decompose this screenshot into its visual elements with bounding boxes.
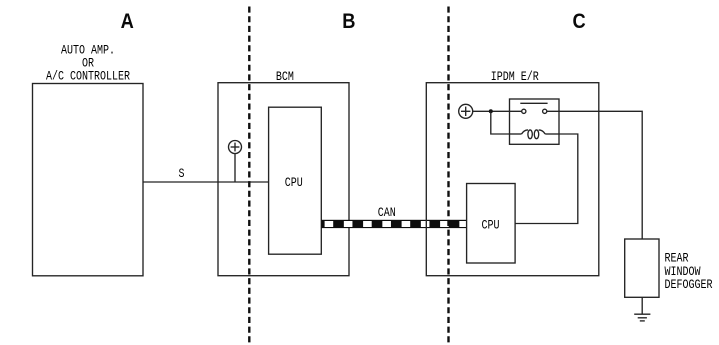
block A/C controller box xyxy=(33,84,144,276)
power symbol (circled plus) in BCM xyxy=(229,141,242,154)
relay coil xyxy=(510,130,560,139)
junction dot on power wire xyxy=(489,109,493,113)
svg-text:A/C CONTROLLER: A/C CONTROLLER xyxy=(46,70,130,85)
IPDM E/R box xyxy=(426,83,599,276)
wire from relay contact to rear window defogger xyxy=(547,111,642,239)
svg-text:S: S xyxy=(178,167,184,182)
ground symbol below defogger xyxy=(634,297,650,321)
svg-text:CPU: CPU xyxy=(481,218,499,233)
wire from relay coil to IPDM CPU xyxy=(515,134,578,224)
svg-text:B: B xyxy=(342,10,355,34)
zone divider dashed line between A and B xyxy=(248,7,250,345)
wire from junction down to relay coil xyxy=(491,111,510,134)
svg-text:C: C xyxy=(573,10,586,34)
svg-text:DEFOGGER: DEFOGGER xyxy=(665,278,713,293)
CAN bus striped line between BCM CPU and IPDM CPU xyxy=(321,220,468,228)
power symbol (circled plus) in IPDM E/R xyxy=(459,104,473,118)
svg-text:CAN: CAN xyxy=(378,206,396,221)
relay contact terminal left xyxy=(522,109,526,113)
svg-text:CPU: CPU xyxy=(285,176,303,191)
BCM box xyxy=(218,83,349,276)
relay contact terminal right xyxy=(543,109,547,113)
label REAR WINDOW DEFOGGER xyxy=(665,251,713,292)
label AUTO AMP. OR A/C CONTROLLER xyxy=(46,44,130,85)
zone divider dashed line between B and C xyxy=(447,7,449,345)
wire from BCM power symbol down to wire S xyxy=(234,154,236,183)
svg-text:A: A xyxy=(121,10,134,34)
CPU box inside BCM xyxy=(269,107,322,254)
relay box in IPDM E/R xyxy=(510,99,560,144)
wire from IPDM power symbol to relay contact xyxy=(473,110,522,112)
CPU box inside IPDM E/R xyxy=(467,184,515,264)
relay contact bar xyxy=(520,102,547,104)
wire S from A/C controller to BCM CPU xyxy=(143,181,269,183)
rear window defogger box xyxy=(625,239,659,297)
